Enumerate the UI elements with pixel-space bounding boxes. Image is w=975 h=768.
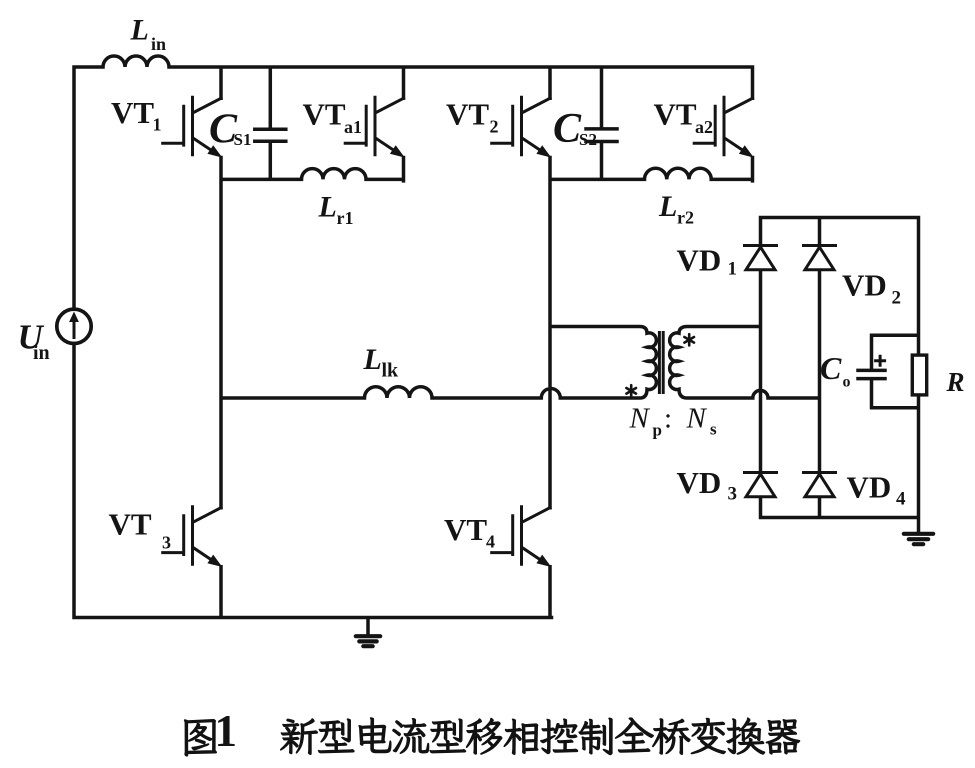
svg-text:r2: r2 [677,207,694,227]
svg-text:L: L [363,343,382,376]
svg-text:3: 3 [162,533,171,553]
svg-text:1: 1 [153,115,162,135]
svg-text:S2: S2 [579,130,597,149]
svg-text:VT: VT [111,95,154,130]
svg-text:a1: a1 [344,117,362,137]
svg-text:VD: VD [677,465,722,500]
svg-text:4: 4 [486,532,495,552]
svg-text:VD: VD [677,243,722,278]
svg-text:3: 3 [728,484,738,505]
svg-text:VT: VT [109,507,152,542]
svg-text:2: 2 [892,288,902,309]
svg-text:C: C [820,350,842,386]
svg-text:1: 1 [728,259,738,280]
svg-text:VT: VT [303,97,346,132]
svg-text:in: in [33,342,50,364]
svg-text:VT: VT [654,97,697,132]
svg-text:lk: lk [382,359,400,381]
svg-text:N: N [629,403,651,435]
svg-text:N: N [686,403,708,435]
svg-text:2: 2 [490,117,499,137]
svg-text:s: s [710,420,717,439]
svg-text::: : [664,403,672,435]
svg-text:in: in [151,34,166,54]
svg-text:p: p [653,421,662,440]
svg-text:a2: a2 [695,117,713,137]
svg-text:o: o [843,374,851,391]
svg-text:L: L [658,190,677,223]
svg-text:R: R [946,367,965,397]
svg-text:VT: VT [446,97,489,132]
svg-text:VT: VT [444,512,487,547]
svg-text:L: L [130,14,149,47]
svg-text:VD: VD [847,470,892,505]
svg-text:L: L [318,191,337,224]
svg-text:S1: S1 [234,130,252,149]
svg-text:r1: r1 [337,208,354,228]
svg-text:4: 4 [896,489,906,510]
svg-text:1: 1 [215,706,238,756]
svg-text:VD: VD [842,268,887,303]
svg-text:C: C [553,106,582,152]
